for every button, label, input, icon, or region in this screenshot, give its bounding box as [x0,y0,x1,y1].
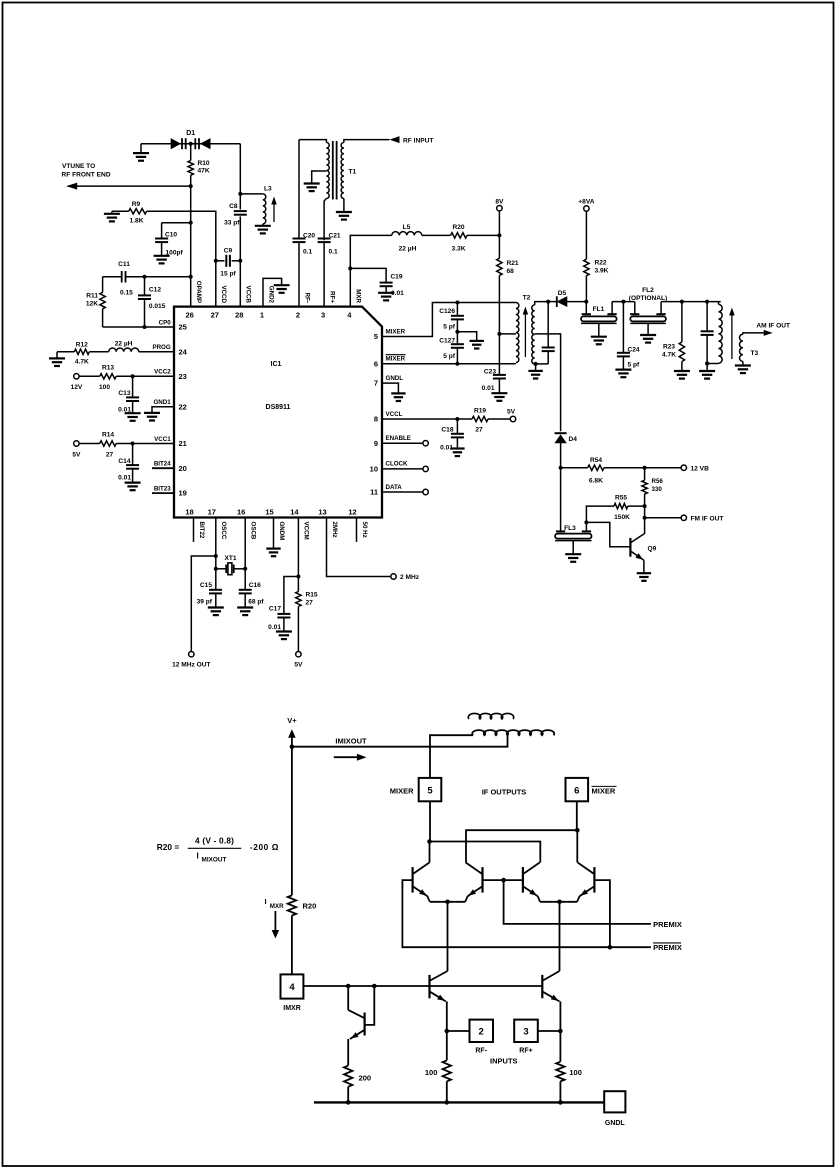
svg-text:C17: C17 [269,606,281,613]
svg-text:RF+: RF+ [519,1048,532,1055]
current source transistor diode connected [347,986,349,1010]
terminal 2 MHz pin 13 [327,518,391,577]
pin box 5 MIXER [419,778,442,801]
svg-text:5V: 5V [294,662,303,669]
svg-text:C21: C21 [329,232,341,239]
pin box 3 RF+ [514,1020,538,1042]
resistor R22 3.9K [585,211,587,259]
svg-text:C14: C14 [118,458,130,465]
resistor R12 4.7K [57,351,74,353]
transistor Q2 [541,975,543,998]
svg-text:R13: R13 [102,364,114,371]
svg-text:VCC2: VCC2 [154,369,171,376]
svg-text:R56: R56 [652,478,664,485]
wire VCCM pin 14 [297,518,299,592]
svg-text:VCCM: VCCM [303,522,310,540]
svg-text:DS8911: DS8911 [266,404,291,411]
svg-text:7: 7 [374,379,378,388]
svg-text:C11: C11 [118,261,130,268]
svg-text:22: 22 [179,402,187,411]
ground between C126 C127 [455,330,459,334]
svg-text:R54: R54 [590,457,602,464]
wire MIXERbar pin 6 net [382,363,516,365]
GNDL box [604,1091,625,1112]
svg-text:5 pf: 5 pf [628,362,641,369]
svg-text:R55: R55 [615,495,627,502]
svg-text:R9: R9 [132,201,141,208]
svg-text:VCCB: VCCB [245,285,252,303]
svg-text:C18: C18 [441,427,453,434]
svg-text:6.8K: 6.8K [589,478,603,485]
T2 primary center tap [497,332,501,336]
ceramic filter FL3 [584,520,588,524]
ceramic filter FL1 [584,300,588,304]
svg-text:T2: T2 [523,295,531,302]
capacitor C127 5 pf [456,332,458,345]
wire MXR pin 4 line [350,235,392,306]
transformer T2 primary winding [516,303,519,363]
svg-text:MXR: MXR [270,903,284,910]
capacitor C17 0.01 [284,577,299,615]
ground at T2 secondary bottom [534,362,538,366]
transformer T1 right winding [341,143,344,199]
svg-text:68: 68 [507,268,515,275]
svg-text:C13: C13 [118,390,130,397]
svg-text:AM IF OUT: AM IF OUT [756,323,790,330]
inductor L3 [238,192,242,196]
pin box 4 IMXR [281,974,304,998]
svg-text:R12: R12 [76,341,88,348]
svg-text:12V: 12V [71,384,83,391]
svg-text:OSCB: OSCB [250,522,257,540]
capacitor C15 39 pf [215,569,217,590]
resistor R23 4.7K [680,300,684,304]
wire FL2 to output tank [661,301,721,303]
svg-text:RF FRONT END: RF FRONT END [62,172,111,179]
PREMIX net [482,879,503,881]
svg-text:8V: 8V [495,199,504,206]
svg-text:V+: V+ [287,716,297,725]
svg-text:OSCC: OSCC [220,522,227,540]
capacitor C9 15 pf [214,259,218,263]
capacitor C126 5 pf [455,301,459,305]
ground at C10 [154,255,170,257]
wire V+ rail down to R20 [291,747,293,896]
svg-text:2: 2 [296,311,300,320]
svg-text:R23: R23 [663,344,675,351]
terminal 5V at VCCM [296,652,301,657]
svg-text:ENABLE: ENABLE [386,435,411,442]
svg-text:R11: R11 [86,293,98,300]
svg-text:13: 13 [318,508,326,517]
RF INPUT arrow [390,136,400,143]
ground at R12 [56,352,58,359]
resistor R15 27 [296,592,301,607]
svg-text:12 MHz OUT: 12 MHz OUT [172,662,210,669]
IC U1 DS8911 body [174,307,382,518]
svg-text:0.01: 0.01 [482,385,495,392]
transformer T3 primary with tank capacitor [705,300,709,304]
svg-text:28: 28 [235,311,243,320]
svg-text:C24: C24 [628,347,640,354]
IC left pin numbers and names [152,319,187,497]
resistor R20 in lower figure [288,895,296,915]
svg-text:0.1: 0.1 [303,248,312,255]
T2 secondary tap to D4 [535,334,561,431]
T3 coupling arrow [731,313,733,359]
wire OSCB pin 16 [244,518,246,569]
svg-text:50 Hz: 50 Hz [361,522,368,538]
base rail from box 4 [303,985,542,987]
transformer T1 left winding [299,140,326,143]
svg-text:17: 17 [208,508,216,517]
svg-text:2 MHz: 2 MHz [400,574,420,581]
svg-text:33 pf: 33 pf [224,220,240,227]
resistor R10 47K [190,144,192,161]
svg-text:19: 19 [179,489,187,498]
resistor R9 1.8K [112,210,129,212]
resistor R21 68 [498,211,500,258]
terminal 8V [497,206,502,211]
svg-text:R20: R20 [303,902,317,911]
T1 core [332,141,334,200]
svg-text:GND1: GND1 [153,399,171,406]
svg-text:PREMIX: PREMIX [653,943,682,952]
svg-text:10: 10 [370,465,378,474]
svg-text:D5: D5 [558,290,567,297]
svg-text:2MHz: 2MHz [331,522,338,538]
svg-text:15: 15 [265,508,273,517]
wire box5 to quad collectors [429,801,431,841]
svg-text:5 pf: 5 pf [443,324,456,331]
svg-text:Q9: Q9 [648,546,657,553]
IF output transformer main coil [472,730,554,735]
wire MIXER pin 5 net [382,303,516,337]
svg-text:22 µH: 22 µH [399,246,417,253]
diode D4 [555,432,567,434]
svg-text:47K: 47K [198,168,210,175]
IMIXOUT flow arrow [334,756,361,758]
svg-text:C19: C19 [390,274,402,281]
ground at FL2 [640,334,656,336]
svg-text:100: 100 [425,1068,438,1077]
capacitor C23 0.01 [493,374,506,376]
svg-text:4: 4 [289,982,295,993]
svg-text:4.7K: 4.7K [662,352,676,359]
svg-text:VCC1: VCC1 [154,436,171,443]
svg-text:PREMIX: PREMIX [653,920,682,929]
svg-text:I: I [265,897,267,906]
IC top pin numbers and names [186,281,362,320]
svg-text:VTUNE TO: VTUNE TO [62,163,95,170]
capacitor C16 68 pf [244,569,246,590]
crystal XT1 [214,567,218,571]
svg-text:5V: 5V [507,409,516,416]
svg-text:RF-: RF- [303,293,310,303]
transistor Q9 [586,522,629,546]
pin box 6 MIXERbar [566,778,589,801]
svg-text:5V: 5V [72,452,81,459]
svg-text:9: 9 [374,439,378,448]
ground at GND2 pin 1 [263,278,282,306]
wire R20 to IMXR box [291,916,293,975]
svg-text:C10: C10 [165,232,177,239]
svg-text:6: 6 [574,786,579,797]
resistor R56 330 [643,466,647,470]
svg-text:VCCD: VCCD [220,285,227,303]
terminal ENABLE pin 9 [382,442,423,444]
svg-text:FL2: FL2 [642,287,654,294]
svg-text:FL1: FL1 [593,306,605,313]
svg-text:5 pf: 5 pf [443,353,456,360]
svg-text:1.8K: 1.8K [130,218,144,225]
ground at C19 [378,292,394,294]
capacitor C21 0.1 [318,238,331,240]
AM IF OUT arrow [747,332,766,334]
svg-text:R10: R10 [198,160,210,167]
resistor R14 27 [79,443,100,445]
ground at L3 [255,225,271,227]
svg-text:MIXER: MIXER [592,787,616,796]
capacitor C18 0.01 [455,417,459,421]
svg-text:3: 3 [321,311,325,320]
ground at FL3 [565,553,581,555]
ground at T3 primary [705,362,709,366]
svg-text:68 pf: 68 pf [248,599,264,606]
svg-text:6: 6 [374,359,378,368]
svg-text:T3: T3 [751,350,759,357]
svg-text:0.15: 0.15 [120,290,133,297]
node CP0 wire to pin 25 [103,326,174,328]
PREMIXbar net [402,880,651,947]
wire OPAMP pin 26 line [190,186,192,307]
capacitor C14 0.01 [131,442,135,446]
svg-text:21: 21 [179,439,187,448]
svg-text:MIXER: MIXER [390,787,414,796]
T2 coupling arrow [524,312,526,357]
inductor L5 22uH [392,232,422,236]
capacitor C10 100pf [162,222,191,224]
IC right pin numbers and names [370,328,411,496]
svg-text:I: I [197,852,199,861]
capacitor C8 33 pf [234,210,247,212]
capacitor C13 0.01 [131,374,135,378]
svg-text:R14: R14 [102,431,114,438]
terminal DATA pin 11 [382,491,423,493]
svg-text:12: 12 [348,508,356,517]
terminal CLOCK pin 10 [382,468,423,470]
svg-text:R20: R20 [452,224,464,231]
ground at C16 [237,606,253,608]
capacitor C24 5 pf [622,302,624,353]
svg-text:0.1: 0.1 [329,248,338,255]
ground at R9 [111,211,113,214]
stub pin 12 50Hz [356,518,358,542]
inductor 22uH on PROG pin [89,351,108,353]
svg-text:100: 100 [99,384,110,391]
capacitor C19 0.01 [348,266,352,270]
svg-text:27: 27 [106,452,114,459]
svg-text:GNDM: GNDM [278,522,285,541]
svg-text:IMXR: IMXR [283,1005,301,1012]
stub pin 18 BIT22 [193,518,195,542]
svg-text:C127: C127 [439,337,455,344]
svg-text:GNDL: GNDL [386,375,404,382]
svg-text:R15: R15 [306,592,318,599]
resistor R13 100 [79,375,100,377]
svg-text:MIXOUT: MIXOUT [202,857,227,864]
svg-text:CP0: CP0 [159,319,172,326]
svg-text:27: 27 [211,311,219,320]
svg-text:C8: C8 [229,203,238,210]
svg-text:4 (V - 0.8): 4 (V - 0.8) [195,836,234,846]
svg-text:GND2: GND2 [267,286,274,304]
IMIXOUT wire [292,736,508,747]
svg-text:24: 24 [179,347,188,356]
wire R9 to VCCD pin 27 line [147,211,216,306]
svg-text:11: 11 [370,488,378,497]
transformer T3 secondary winding [740,334,743,361]
svg-text:RF-: RF- [475,1048,487,1055]
svg-text:MXR: MXR [355,289,362,303]
svg-text:D4: D4 [569,436,578,443]
capacitor C12 0.015 [143,275,147,279]
svg-text:27: 27 [306,600,314,607]
svg-text:18: 18 [185,508,193,517]
wire FL1 to FL2 [612,301,635,303]
resistor 100 left [443,1060,451,1081]
T1 primary tap ground [312,171,327,184]
terminal 12V [74,374,79,379]
ground at C23 [491,392,507,394]
stub pin 20 BIT24 [152,467,174,469]
svg-text:12 VB: 12 VB [691,465,710,472]
svg-text:3.9K: 3.9K [595,268,609,275]
svg-text:27: 27 [475,427,483,434]
svg-text:C126: C126 [439,308,455,315]
svg-text:R22: R22 [595,260,607,267]
svg-text:2: 2 [479,1027,484,1038]
svg-text:22 µH: 22 µH [115,340,133,347]
svg-text:C23: C23 [484,369,496,376]
svg-text:C20: C20 [303,232,315,239]
ground at GNDL pin 7 [382,383,398,393]
terminal +8VA [584,206,589,211]
resistor R20 3.3K [451,233,467,238]
svg-text:BIT24: BIT24 [154,461,171,468]
terminal 5V at VCC1 [74,441,79,446]
svg-text:1: 1 [260,311,264,320]
stub pin 19 BIT23 [152,492,174,494]
svg-text:23: 23 [179,372,187,381]
transistor Q1 [428,975,430,998]
terminal 12 MHz OUT [189,652,194,657]
svg-text:FL3: FL3 [564,525,576,532]
ground at T1 secondary [336,211,352,213]
svg-text:L5: L5 [403,224,411,231]
wire right joint to Q2 collector [559,902,561,971]
resistor R19 27 [472,416,488,421]
svg-text:8: 8 [374,415,378,424]
left pair emitter joint [430,901,465,903]
svg-text:0.01: 0.01 [268,624,281,631]
svg-text:26: 26 [186,311,194,320]
svg-text:100: 100 [569,1068,582,1077]
wire VCCL pin 8 [382,418,472,420]
transistor QB of mixer quad [481,867,483,893]
ground rail [314,1101,604,1103]
transistor QA of mixer quad [429,842,431,863]
capacitor C11 0.15 [103,276,122,278]
svg-text:BIT23: BIT23 [154,486,171,493]
svg-text:R19: R19 [474,408,486,415]
transistor QD of mixer quad [593,867,595,893]
svg-text:PROG: PROG [152,344,170,351]
svg-text:GNDL: GNDL [605,1120,626,1127]
svg-text:D1: D1 [186,130,195,137]
transistor QC of mixer quad [522,867,524,893]
svg-text:RF INPUT: RF INPUT [403,137,433,144]
terminal 12 VB [681,465,686,470]
ground at Q9 emitter [637,572,651,574]
svg-text:CLOCK: CLOCK [386,461,409,468]
svg-text:5: 5 [427,786,433,797]
svg-text:L3: L3 [264,186,272,193]
svg-text:0.015: 0.015 [149,303,166,310]
svg-text:MIXER: MIXER [386,328,406,335]
terminal 5V at R19 [510,416,515,421]
resistor R54 6.8K [559,466,563,470]
wire box6 to quad collectors [576,801,578,830]
svg-text:XT1: XT1 [224,555,236,562]
ground at C15 [208,606,224,608]
svg-text:200: 200 [359,1074,372,1083]
pin box 5 MIXER riser and coil feed [430,735,473,778]
svg-text:12K: 12K [86,301,98,308]
svg-text:IMIXOUT: IMIXOUT [335,737,367,746]
svg-text:C16: C16 [249,582,261,589]
svg-text:R20 =: R20 = [157,842,180,852]
svg-text:VCCL: VCCL [386,411,403,418]
right pair emitter joint [540,901,577,903]
svg-text:RF+: RF+ [328,291,335,303]
capacitor C20 0.1 [298,140,300,239]
svg-text:39 pf: 39 pf [197,599,213,606]
svg-text:R21: R21 [507,260,519,267]
svg-text:0.01: 0.01 [118,475,131,482]
svg-text:T1: T1 [349,169,357,176]
svg-text:3: 3 [523,1027,528,1038]
ground at D1 left [140,144,142,153]
ground at FL1 [591,336,607,338]
svg-text:+8VA: +8VA [578,199,594,206]
T2 secondary tuning capacitor [546,300,550,304]
arrow beside L3 [273,202,275,222]
svg-text:BIT22: BIT22 [198,522,205,539]
ground at GND1 pin 22 [152,407,174,413]
resistor R55 150K [643,504,647,508]
svg-text:FM IF OUT: FM IF OUT [691,515,724,522]
svg-text:DATA: DATA [386,484,403,491]
svg-text:25: 25 [179,323,187,332]
svg-text:MIXER: MIXER [386,356,406,363]
ground at C24 [615,369,631,371]
terminal FM IF OUT [643,516,647,520]
resistor 100 right [556,1062,564,1082]
svg-text:IF OUTPUTS: IF OUTPUTS [482,788,527,797]
pin box 2 RF- [447,1030,470,1032]
IF output transformer small coil [468,713,513,719]
